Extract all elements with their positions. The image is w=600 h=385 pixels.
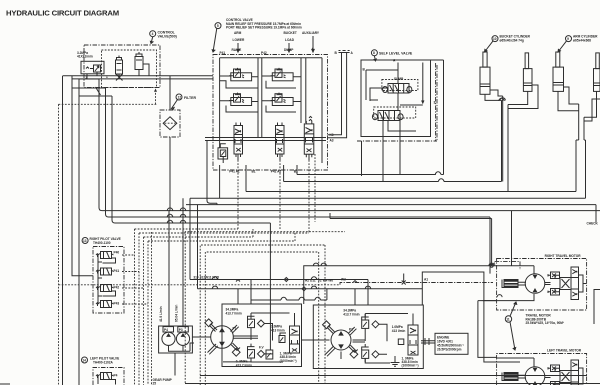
svg-text:413 l/min: 413 l/min [392,329,406,333]
left travel motor: dash-dot box [497,354,587,385]
wire: dashed pilot horizontal 2 [139,232,309,234]
check valve diamond 4 [372,351,379,358]
svg-text:11: 11 [506,317,510,321]
wire: dashed case drain 2 [205,252,318,385]
leader from callout 4 [150,37,153,44]
arm cylinder right: piston [594,83,600,86]
relief valve in valve500 [94,65,101,72]
svg-text:FILTER: FILTER [184,96,196,100]
filter 12: dash-dot enclosure [160,110,180,137]
wire: right edge stub [595,205,597,222]
wire: humps on bundle at filter column [167,208,185,223]
wire: second gear pump column [182,198,184,326]
right travel motor: dash-dot box [497,259,587,311]
spool valve SLV-1 [382,80,418,94]
relief valve CV-3 [229,93,252,106]
svg-text:14: 14 [82,358,86,362]
gear pump P3: port box [178,327,189,332]
wire: bundle line y175 to self level right [297,172,444,175]
cartridge valve A in valve500 [116,60,123,74]
wire: check rect top [330,213,492,266]
arm cylinder left: body [553,67,564,91]
pilot valve RP-1 [96,252,114,259]
svg-text:AUXILIARY: AUXILIARY [302,31,320,35]
wire: bumps on pump bundle [212,277,370,291]
wire: travel series pair RTM to LTM [478,295,502,358]
svg-text:(1000minˉ¹): (1000minˉ¹) [402,363,419,367]
svg-text:413 l/min: 413 l/min [271,328,285,332]
arrow arm [237,43,239,52]
tank symbol [391,356,400,366]
bucket cylinder right: rod [525,53,529,69]
self level valve: bottom dash-dot [357,65,437,141]
control valve 500: outer dash-dot box [84,45,160,88]
svg-text:B: B [335,51,338,55]
pilot valve LP-1 [96,373,114,380]
wire: filter drop line [169,76,170,326]
svg-text:P41 A1: P41 A1 [229,170,240,174]
relief valve CV-1 (arm lower) [229,68,252,81]
svg-text:P40: P40 [114,251,120,255]
spool valve SLV-2 [372,107,415,121]
wire: dash-dot extra pilot vertical [151,232,153,385]
wire: CV top rail [220,58,322,163]
wire: dashed horizontal from left trunk to filter column [59,103,158,105]
wire: LTM right connections [579,368,584,384]
wire: P2 out shaft to engine [421,338,435,345]
relief valve CV-2 (bucket load) [271,68,293,81]
main pump P2: arm end squares [323,321,331,329]
wire: CV inner vertical left [219,58,221,148]
wire: dashed stub arrow up at filter column [155,91,157,104]
wire: left pilot feed [98,376,116,385]
wire: SLV internals [362,88,423,182]
svg-text:HYDRAULIC CIRCUIT DIAGRAM: HYDRAULIC CIRCUIT DIAGRAM [6,9,119,18]
wire: CV out drop 4 [219,165,221,198]
wire: pilot feed line y300 [251,289,327,304]
pump circuit box left [222,304,302,367]
svg-text:P41: P41 [114,269,120,273]
svg-text:TH400-1102A: TH400-1102A [93,361,114,365]
gear reducer LTM [502,373,526,381]
wire: SLV right outside vertical [435,63,437,141]
wire: bucket cyl right bottom to bus [508,85,538,109]
travel motor RTM: triangles [533,275,538,292]
wire: RTM right connections [579,275,587,292]
wire: riser tops [72,79,112,96]
wire: valve500 internal drops [87,69,149,79]
main pump P2: swash arms [325,325,358,357]
svg-text:41X21/min: 41X21/min [77,55,93,59]
counterbalance valve LTM [548,360,579,385]
wire: RTM shaft to brake [545,283,551,285]
svg-text:4: 4 [152,32,154,36]
gear pump P3: circle [176,332,189,345]
wire: arm cyl right bottom [584,91,600,121]
wire: bucket vertical pair down [503,96,508,192]
control valve 5: dash-dot boundary [213,55,328,171]
bucket cylinder left: rod [483,52,487,67]
wire: bundle line y181.5 [284,101,502,182]
wire: RTM pilot dash-dot [495,261,520,270]
arm cylinder right: rod [596,53,600,69]
engine box [435,333,468,354]
relief valve CV-4 [271,93,293,106]
wire: dashed left trunk vertical [58,104,60,385]
svg-text:B: B [363,68,366,72]
arm cylinder right: body [594,69,600,92]
wire: P1 internals [223,313,295,362]
wire: CV out drop 3 [245,165,247,192]
svg-text:65.04 L/min: 65.04 L/min [175,305,179,322]
small pilot relief left unit [279,336,285,343]
wire: left bend riser 3 [112,96,270,223]
wire: dashed pilot vertical 3 [143,237,145,385]
wire: B riser [328,51,345,135]
wire: gear pump drop to tank [174,353,176,376]
svg-text:26.5PS/2000rpm: 26.5PS/2000rpm [437,347,462,351]
junction a [490,264,493,267]
wire: vertical x490 down to right travel motor [489,217,491,274]
svg-text:3: 3 [434,101,436,105]
check valve diamond 2 [258,350,265,357]
arrow auxiliary [312,36,314,52]
svg-text:SUMP: SUMP [394,77,404,81]
wire: pump out risers [190,198,422,288]
bucket cylinder 10: leader [485,41,494,52]
left pilot valve: dash-dot box [93,368,124,385]
arm cylinder 9: leader [558,41,567,52]
wire: gear pump shafts and suction [169,343,195,351]
svg-text:10: 10 [493,37,497,41]
wire: dashed pilot vertical 2 [138,233,140,385]
svg-text:12: 12 [178,95,182,99]
wire: CV out drop 1 [296,165,298,175]
svg-text:41.9 L/min: 41.9 L/min [159,306,163,322]
relief valve PU2-1 [362,314,369,332]
pilot valve RP-2 [96,268,114,275]
pilot valve RP-3 [96,285,114,292]
travel motor 11: callout [505,316,511,322]
relief valve PU-2 [248,344,255,362]
small valve F.V [266,350,273,359]
wire: dash-dot pilot line right [340,283,493,285]
crossing X symbol under cartridge A [116,74,123,81]
pilot valve RP-4 [96,301,114,308]
wire: bottom left stub [0,383,10,385]
svg-text:BUCKET: BUCKET [284,31,297,35]
wire: tank line upper [200,375,587,377]
svg-text:A: A [351,51,354,55]
wire: CV main pressure line double [205,138,326,141]
wire: bundle line y188 [246,140,576,192]
svg-text:P3: P3 [179,328,183,332]
wire: hump at bucket join [499,98,504,101]
filter 12: dashed element [165,122,176,124]
leader lines from callout 11 [510,302,517,350]
wire: dashed case drain 1 [200,245,325,385]
wire: dashed pilot horizontal 1 [135,228,239,230]
spool valve CV-S1 [234,123,243,158]
svg-text:(1000minˉ¹): (1000minˉ¹) [280,359,297,363]
wire: solid left vertical 1 [62,76,64,385]
self level valve 8: callout [371,50,377,56]
svg-text:P42: P42 [261,51,267,55]
wire: P2 internals [341,314,413,364]
filter 12: leader line [172,100,178,110]
pump circuit box right [313,305,423,369]
svg-text:TH400-1100: TH400-1100 [93,241,111,245]
svg-text:LOAD: LOAD [285,38,295,42]
wire: pump A1 box to series line [422,272,496,362]
travel motor RTM: circle [525,274,545,294]
wire: feeds down into pump boxes [236,280,368,306]
wire: drop at x270 into pump unit [269,223,271,350]
wire: arm cyl left bottom [558,87,579,111]
travel motor LTM: circle [525,367,545,385]
wire: dashed pilot vertical 4 [147,241,149,385]
right pilot valve: dash-dot box [93,247,124,314]
svg-text:25: 25 [153,382,157,385]
svg-text:SELF LEVEL VALVE: SELF LEVEL VALVE [379,52,413,56]
arm cylinder 9: callout [566,36,572,42]
svg-text:413.7 l/min: 413.7 l/min [343,312,359,316]
svg-text:LEFT TRAVEL MOTOR: LEFT TRAVEL MOTOR [547,349,582,353]
wire: dashed pilot vertical 1 [134,229,136,385]
svg-text:B1: B1 [252,170,256,174]
wire: CV feed drop at x207 [207,141,217,205]
wire: solid left vertical 2 to right pilot valve [72,76,93,276]
self level valve: leader [374,56,376,61]
wire: left bend riser 2 [106,88,491,217]
wire: dashed pilot horizontal 3 [144,229,254,237]
svg-text:F.V: F.V [259,346,264,350]
wire: A riser [328,51,350,138]
svg-text:PORT RELIEF SET PRESSURE 19.1: PORT RELIEF SET PRESSURE 19.1MPa at 60l/… [226,26,302,30]
relief valve PU2-2 [362,344,369,362]
wire: vertical x511 down to right travel motor [511,211,513,266]
main pump P1: circle [211,326,234,349]
wire: P2 shaft [302,340,366,342]
svg-text:413.7 l/min: 413.7 l/min [236,363,252,367]
wire: relief row1 right feeds [262,76,301,88]
wire: dashed pilot horizontal 4 [148,233,295,241]
main pump P1: arm end squares [205,319,213,327]
svg-text:P43: P43 [114,302,120,306]
wire: right edge corner below RTM [594,290,600,325]
control valve 500: relief sub-box [81,61,104,74]
check valve diamond 3 [372,321,379,328]
bucket cylinder right: piston [523,83,532,86]
leader line callout 5 [212,28,217,52]
wire: RTM feed lines [483,266,534,301]
wire: LTM feed lines [497,358,534,367]
svg-text:413.7 l/min: 413.7 l/min [226,311,242,315]
wire: supply double line from valve500 east [63,75,214,77]
main pump P1: swash arms [208,323,241,355]
svg-text:A1: A1 [424,278,428,282]
cartridge valve B in valve500 [135,57,143,70]
counterbalance valve RTM [548,267,579,300]
control valve 5: callout circle [215,23,221,29]
wire: pump to RTM feed line y265 [304,263,497,304]
svg-text:P4: P4 [164,328,168,332]
wire: CV out drop 2 [283,165,285,182]
wire: tank line lower [185,383,600,385]
check valve diamond 1 [258,320,265,327]
main pump P1: triangles [219,328,225,347]
wire: drain diagonal from valve500 [96,87,101,95]
bucket cylinder right: body [523,69,532,92]
wire: bucket cyl left bottom to bus [485,90,503,100]
bucket cylinder left: piston [480,84,490,87]
wire: return line from valve500 east [72,78,213,80]
self level valve: outer box [361,60,431,137]
wire: P1 shaft line [192,336,258,338]
svg-text:A3: A3 [330,139,334,143]
svg-text:P42 A2: P42 A2 [271,170,282,174]
gear reducer RTM [502,280,526,288]
wire: pilot valve output stubs to dashed bundle [122,255,148,304]
gear pump P4: circle [162,332,175,345]
wire: relief row2 feed lines [220,101,258,112]
control valve 500: inner dashed box [102,50,157,88]
spool valve CV-S2 [276,123,285,158]
wire: vertical x441 self level to bundle [431,60,444,175]
pilot dashed drops from spools [238,154,315,233]
svg-text:5: 5 [217,24,219,28]
wire: bundle line y196.5 [190,140,586,198]
right pilot valve 13: callout [82,238,88,244]
spool valve CV-S3 (auxiliary) [304,116,314,157]
svg-text:13: 13 [83,239,87,243]
wire: relief row1 feed lines [220,76,258,88]
wire: dashed long pilot line left [59,284,341,286]
gear pump P4: port box [163,327,174,332]
main pump P2: circle [331,330,351,350]
wire: right pilot internal manifold [98,255,116,304]
svg-text:RIGHT TRAVEL MOTOR: RIGHT TRAVEL MOTOR [545,254,582,258]
wire: relief row2 right feeds [262,101,301,112]
svg-text:CHECK: CHECK [587,222,599,226]
svg-text:a: a [494,262,496,266]
arrow bucket [288,43,290,52]
svg-text:P4: P4 [114,374,118,378]
svg-text:ø65x44x668: ø65x44x668 [573,38,591,42]
svg-text:ø65x40x264 74g: ø65x40x264 74g [500,38,524,42]
wire: CV spool connections [238,154,309,160]
wire: CV inner vertical right col [301,58,306,123]
wire: long return line y205.5 [186,204,596,206]
regulator stack right [408,325,418,355]
wire: LTM shaft to brake [545,376,551,378]
wire: SLV internal top feed [366,63,424,104]
arm cylinder left: rod [556,52,560,67]
svg-text:ARM: ARM [234,31,242,35]
small valve right sq [398,339,404,345]
wire: hump on bucket drop [500,98,505,101]
svg-text:8: 8 [373,51,375,55]
svg-text:RAISE: RAISE [232,48,242,52]
svg-text:VALVE(500): VALVE(500) [158,34,177,38]
svg-text:P42: P42 [114,286,120,290]
filter 12: diamond symbol [163,117,177,130]
callout circle 4: CONTROL VALVE(500) [150,31,156,37]
svg-text:25.5kW*425, 14*70a, 90M¹: 25.5kW*425, 14*70a, 90M¹ [526,321,564,325]
svg-text:9: 9 [567,37,569,41]
wire: dashed enclosure outer [185,232,345,383]
bucket cylinder left: body [480,67,490,94]
svg-text:1: 1 [106,75,108,79]
main pump P2: triangles [338,331,344,349]
wire: left bend riser 1 [99,79,600,211]
arm cylinder left: piston [553,83,564,86]
bucket cylinder 10: callout [492,36,498,42]
relief valve CV-low (bottom left) [218,144,228,163]
svg-text:P41: P41 [220,51,226,55]
wire: arm vertical pair down [576,104,586,140]
junction X on pilot line [402,274,406,285]
relief valve PU-1 [248,313,255,331]
svg-text:LOWER: LOWER [233,38,246,42]
left pilot valve 14: callout [82,357,88,363]
wire: CV inner vertical mid [258,58,262,138]
filter 12: callout circle [176,94,182,100]
regulator stack left [290,326,300,353]
travel motor LTM: triangles [533,368,538,385]
svg-text:P1: P1 [349,328,353,332]
wire: solid left vertical 3 [78,79,80,385]
svg-text:P1: P1 [233,327,237,331]
gear pump enclosure [159,326,193,353]
